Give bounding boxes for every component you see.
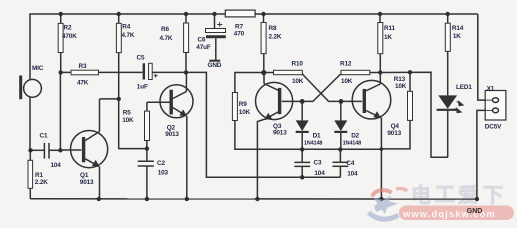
svg-text:X1: X1 <box>487 85 495 92</box>
wire R5 top to Q2 base <box>147 101 170 103</box>
svg-text:10K: 10K <box>395 83 407 90</box>
svg-text:R2: R2 <box>64 25 72 32</box>
svg-text:104: 104 <box>314 170 325 177</box>
wire <box>29 97 31 150</box>
svg-text:104: 104 <box>347 171 358 178</box>
resistor R11 <box>378 14 383 73</box>
resistor R7 <box>225 10 255 17</box>
capacitor C2 <box>138 161 154 199</box>
svg-text:电: 电 <box>411 184 431 207</box>
ground symbol (C6) <box>209 60 220 62</box>
resistor R8 <box>261 14 266 73</box>
wire Q2 collector node to C3/C4 bottoms <box>186 72 340 177</box>
diode D1 <box>296 101 309 149</box>
svg-text:9013: 9013 <box>273 130 287 137</box>
resistor R1 <box>28 150 33 199</box>
svg-text:C4: C4 <box>346 160 354 167</box>
svg-text:103: 103 <box>158 169 169 176</box>
resistor R2 <box>58 14 63 72</box>
watermark chinese characters <box>411 184 503 207</box>
svg-text:9013: 9013 <box>80 179 94 186</box>
svg-text:1N4148: 1N4148 <box>304 141 322 147</box>
wire X1 pin2 to ground rail <box>477 110 486 199</box>
svg-text:47uF: 47uF <box>196 44 211 51</box>
LED LED1 <box>437 95 464 157</box>
resistor R6 <box>184 14 189 72</box>
svg-text:1K: 1K <box>384 34 392 41</box>
svg-text:R3: R3 <box>79 63 87 70</box>
top supply rail <box>30 14 225 79</box>
svg-text:1N4148: 1N4148 <box>343 141 361 147</box>
svg-text:C5: C5 <box>137 55 145 62</box>
svg-text:10K: 10K <box>292 78 304 85</box>
wire R2 bottom to C1 node <box>59 72 61 150</box>
diode D2 <box>334 101 347 149</box>
svg-text:GND: GND <box>208 62 222 69</box>
svg-text:C3: C3 <box>314 159 322 166</box>
resistor R3 <box>61 70 143 75</box>
resistor R5 <box>145 102 150 161</box>
bottom ground rail <box>30 198 477 200</box>
svg-text:R10: R10 <box>292 61 304 68</box>
resistor R14 <box>445 14 450 95</box>
capacitor C4 <box>333 149 349 177</box>
transistor Q1 <box>60 99 107 199</box>
svg-text:R8: R8 <box>269 25 277 32</box>
svg-text:2.2K: 2.2K <box>35 179 48 186</box>
svg-text:10K: 10K <box>341 78 353 85</box>
svg-text:2.2K: 2.2K <box>269 34 282 41</box>
svg-text:R4: R4 <box>122 24 130 31</box>
connector X1 <box>485 91 506 121</box>
svg-text:R11: R11 <box>384 25 396 32</box>
svg-text:D2: D2 <box>351 132 359 139</box>
resistor R13 <box>381 72 412 149</box>
svg-text:470: 470 <box>234 30 245 37</box>
svg-text:下: 下 <box>483 185 503 207</box>
microphone MIC <box>21 76 42 100</box>
capacitor C6 <box>206 14 226 60</box>
svg-text:爱: 爱 <box>458 184 478 207</box>
svg-text:470K: 470K <box>62 33 77 40</box>
svg-text:LED1: LED1 <box>456 84 472 91</box>
capacitor C5 <box>144 63 186 79</box>
capacitor C1 <box>31 143 61 159</box>
svg-text:R5: R5 <box>123 110 131 117</box>
transistor Q3 (mirrored) <box>256 73 303 199</box>
resistor R4 <box>116 14 121 99</box>
svg-text:R12: R12 <box>340 61 352 68</box>
svg-text:C1: C1 <box>40 133 48 140</box>
svg-text:4.7K: 4.7K <box>122 32 135 39</box>
svg-text:1uF: 1uF <box>137 83 148 90</box>
svg-text:R6: R6 <box>161 26 169 33</box>
svg-text:10K: 10K <box>239 109 251 116</box>
svg-text:1K: 1K <box>453 33 461 40</box>
wire <box>255 13 478 15</box>
svg-text:Q4: Q4 <box>391 123 400 130</box>
wire Q4 collector node to R13/LED <box>380 72 448 157</box>
wire to X1 pin1 <box>478 14 486 100</box>
svg-text:DC5V: DC5V <box>485 124 502 131</box>
svg-text:C6: C6 <box>198 36 206 43</box>
svg-text:4.7K: 4.7K <box>160 35 173 42</box>
svg-text:47K: 47K <box>77 80 89 87</box>
watermark url band <box>399 206 514 221</box>
resistor R10 <box>264 70 341 101</box>
resistor R12 <box>302 70 380 101</box>
svg-text:C2: C2 <box>157 160 165 167</box>
svg-text:D1: D1 <box>313 132 321 139</box>
svg-text:MIC: MIC <box>32 65 44 72</box>
watermark logo <box>369 188 411 219</box>
svg-text:9013: 9013 <box>165 131 179 138</box>
svg-text:R14: R14 <box>452 25 464 32</box>
resistor R9 <box>232 73 381 150</box>
svg-text:工: 工 <box>435 184 455 206</box>
svg-text:R9: R9 <box>239 101 247 108</box>
wire Q1 collector node <box>100 99 147 149</box>
svg-text:9013: 9013 <box>387 130 401 137</box>
svg-text:GND: GND <box>467 208 483 215</box>
svg-text:10K: 10K <box>122 117 134 124</box>
svg-text:104: 104 <box>51 162 62 169</box>
transistor Q2 <box>160 72 193 199</box>
capacitor C3 <box>294 149 310 177</box>
transistor Q4 <box>341 73 391 200</box>
